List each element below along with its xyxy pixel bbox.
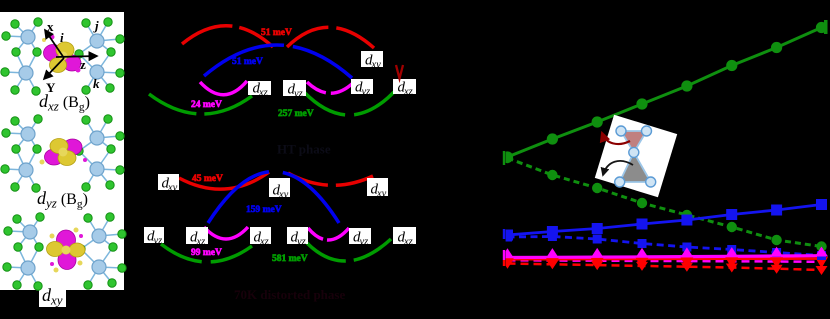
svg-text:51 meV: 51 meV [261,28,292,38]
svg-text:yz: yz [153,236,163,247]
blue hop arc [204,45,352,78]
inset atom bonds [620,131,651,182]
green arc A [161,244,252,262]
inset atoms [616,126,626,136]
svg-text:581 meV: 581 meV [272,254,308,264]
green arc B [307,239,391,261]
magenta hop arc 1 [200,81,247,95]
green circle markers dashed [502,153,512,163]
axis clip left [470,0,506,319]
blue square markers dashed [503,233,512,242]
inset white square [595,115,677,197]
svg-text:xz: xz [258,88,268,99]
orbital label boxes distorted [158,174,179,194]
green circle markers solid [502,151,513,162]
orbital label boxes HT [248,81,271,99]
svg-text:xy: xy [371,60,382,71]
svg-text:257 meV: 257 meV [278,109,314,119]
red down-triangle markers [502,260,514,269]
magenta hop arc 2 [307,82,353,93]
svg-text:xz: xz [403,237,413,248]
svg-text:51 meV: 51 meV [232,57,263,67]
green hop arc 1 [149,94,252,114]
svg-text:i: i [60,30,64,45]
svg-text:xz: xz [196,237,206,248]
svg-text:z: z [80,57,86,72]
svg-text:159 meV: 159 meV [246,205,282,215]
inset black arrow [603,161,633,175]
crystal cluster top (d_xz) [1,18,124,95]
chart lines [508,28,822,158]
svg-text:xz: xz [403,87,413,98]
blue arch [208,172,339,224]
green bar at top right [824,20,828,34]
svg-text:24 meV: 24 meV [191,100,222,110]
red hop arc A [179,172,269,189]
magenta arc B [308,228,349,240]
inset dark red arrow [602,133,630,144]
red hop arc B [288,173,373,185]
svg-text:yz: yz [359,237,369,248]
orbital lobes d_xy [47,228,86,273]
orbital lobes d_xz [42,35,81,73]
left panel white background [0,12,124,290]
svg-text:HT phase: HT phase [277,142,331,157]
green hop arc 2 [304,92,394,115]
svg-text:99 meV: 99 meV [191,248,222,258]
inset pink triangle [621,131,647,152]
blue square markers solid [502,230,513,241]
svg-text:xz: xz [259,237,269,248]
crystal cluster bottom (d_xy) [3,213,126,290]
red hop arc 2 [287,27,374,48]
magenta up-triangle markers [501,248,514,258]
svg-text:70K distorted phase: 70K distorted phase [234,287,345,302]
red hop arc 1 [182,26,273,47]
svg-text:xy: xy [376,189,387,200]
svg-text:k: k [93,76,100,91]
crystal cluster middle (d_yz) [1,115,124,192]
inset gray triangle [620,153,651,182]
svg-text:x: x [47,19,54,34]
svg-text:xy: xy [278,190,289,201]
magenta arc A [204,227,248,239]
svg-text:yz: yz [296,237,306,248]
svg-text:45 meV: 45 meV [192,174,223,184]
svg-text:yz: yz [293,89,303,100]
orbital lobes d_yz [40,139,88,166]
svg-text:yz: yz [361,87,371,98]
dark red V arrow [396,65,403,79]
svg-text:xy: xy [167,183,178,194]
